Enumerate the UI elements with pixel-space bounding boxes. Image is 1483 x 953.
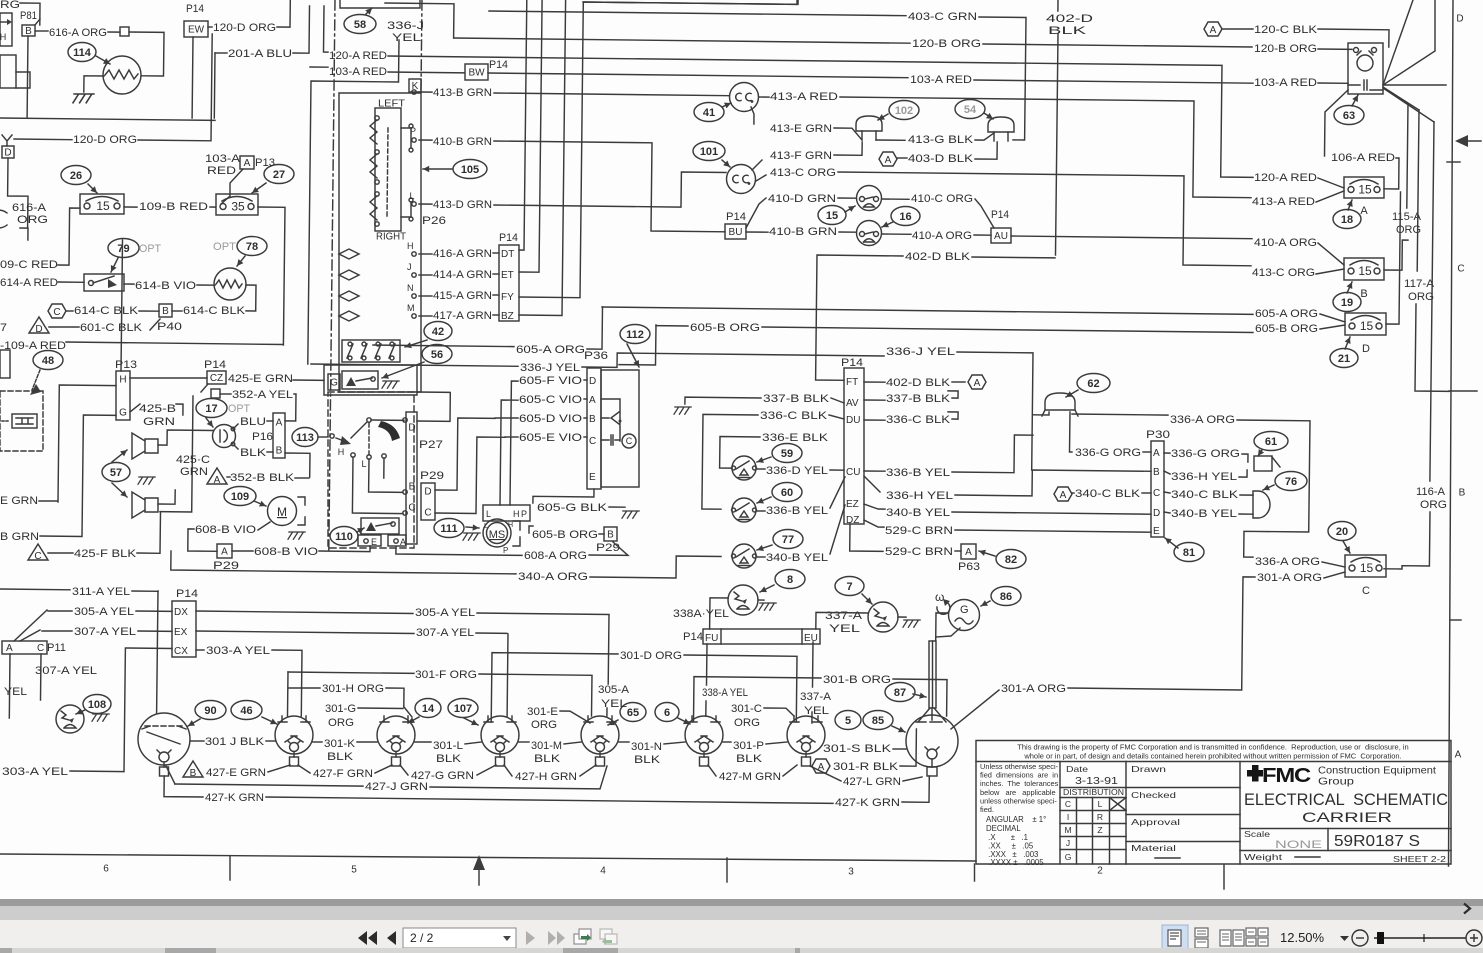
- arrow 63: [1352, 95, 1358, 106]
- toolbar prev-view icon: [574, 929, 591, 944]
- svg-text:B GRN: B GRN: [0, 531, 39, 543]
- svg-text:336-G ORG: 336-G ORG: [1171, 448, 1240, 460]
- relay 110 box: [361, 518, 399, 534]
- speaker 57 lower: [132, 492, 158, 518]
- wire 410-A to AU: [974, 234, 991, 236]
- arrow 78: [237, 256, 245, 266]
- wire 616-A bracket: [20, 228, 28, 240]
- flasher 41: [730, 83, 759, 112]
- wire row y4 top-left: [385, 3, 454, 38]
- svg-text:605-F VIO: 605-F VIO: [519, 375, 583, 387]
- svg-text:108: 108: [88, 699, 106, 711]
- wire 427-J row c: [430, 766, 607, 789]
- wire sender7 right: [898, 616, 906, 618]
- title block outer box: [976, 741, 1451, 865]
- svg-text:P14: P14: [991, 209, 1009, 221]
- wire 336-A to fuse20 route: [1237, 420, 1310, 557]
- wire 117-A below label: [1415, 304, 1449, 391]
- wire BLU to A: [267, 420, 273, 422]
- svg-text:P14: P14: [726, 211, 746, 223]
- fuse 27 (35A): [216, 194, 258, 215]
- svg-text:CX: CX: [174, 646, 188, 657]
- wire lamp107 to 301M: [519, 741, 529, 743]
- wire 305-A row: [136, 610, 172, 612]
- wire E pin to 605-G: [533, 489, 594, 503]
- weight dash: [1295, 856, 1320, 858]
- wire 414-A to ET: [493, 273, 499, 275]
- pin A box (110): [388, 535, 406, 546]
- toolbar zoom slider: [1374, 937, 1466, 939]
- fuse 26 (15A): [80, 194, 124, 214]
- wire EU riser b: [811, 712, 813, 723]
- wire 413-G to dome54: [975, 133, 994, 140]
- wire 120-D ORG corner: [277, 0, 290, 27]
- motor MS: [483, 519, 511, 547]
- svg-text:301-R BLK: 301-R BLK: [833, 761, 899, 773]
- wire 605-G to ground: [609, 506, 625, 508]
- svg-text:P11: P11: [47, 642, 66, 654]
- wire 605-A riser: [587, 307, 603, 349]
- svg-text:P27: P27: [419, 439, 443, 451]
- wire 427-E to lamp46: [268, 765, 290, 772]
- wire dome62 left stem: [1033, 412, 1049, 415]
- bus wire y118: [0, 118, 215, 120]
- zone tick 4-3: [726, 858, 728, 882]
- svg-text:B: B: [190, 768, 197, 779]
- P36 internal contacts: [601, 399, 620, 445]
- svg-text:608-A ORG: 608-A ORG: [524, 550, 587, 562]
- wire lamp14 to 301L: [415, 741, 431, 743]
- svg-text:605-G BLK: 605-G BLK: [537, 502, 608, 514]
- svg-text:614-C BLK: 614-C BLK: [74, 305, 139, 317]
- svg-text:3-13-91: 3-13-91: [1075, 775, 1118, 787]
- wire 117-A ORG vert: [1417, 110, 1419, 271]
- svg-text:336-B YEL: 336-B YEL: [886, 467, 950, 479]
- wire 427-G to lamp14: [400, 765, 408, 775]
- callout 14: [415, 699, 441, 718]
- wire 614-C to B: [139, 310, 159, 312]
- svg-text:CU: CU: [846, 467, 860, 478]
- svg-text:A: A: [1455, 750, 1462, 761]
- callout 48: [33, 351, 63, 370]
- arrow 59: [757, 457, 771, 462]
- toolbar page dropdown arrow: [503, 936, 511, 941]
- wire lamp6 to 301P: [723, 741, 731, 743]
- svg-text:105: 105: [461, 164, 479, 176]
- arrow 65: [608, 720, 618, 725]
- wire lamp65 to 301N: [619, 741, 629, 743]
- svg-text:616-A ORG: 616-A ORG: [49, 27, 107, 39]
- svg-text:336-H YEL: 336-H YEL: [886, 490, 953, 502]
- svg-text:AV: AV: [846, 398, 859, 409]
- wire 106-A right leg: [1384, 158, 1399, 189]
- toolbar one-column layout button: [1195, 928, 1208, 948]
- wire 413-F to dome102r: [834, 142, 862, 155]
- wire 427-H to lamp107: [504, 765, 512, 776]
- svg-text:P30: P30: [1146, 429, 1170, 441]
- wire 17 to BLU: [234, 424, 238, 428]
- svg-text:P14: P14: [204, 359, 226, 371]
- wire G bottom: [936, 628, 960, 637]
- callout 114: [68, 43, 96, 62]
- wire row y2 (403-B GRN): [583, 0, 797, 4]
- lamp 5: [787, 716, 825, 754]
- svg-text:BW: BW: [468, 68, 485, 79]
- svg-text:M: M: [407, 303, 415, 313]
- wire hexA 403-D: [897, 157, 907, 159]
- callout 76: [1275, 472, 1307, 491]
- svg-text:A: A: [974, 378, 981, 389]
- wire 352-A bracket: [285, 394, 296, 421]
- svg-text:410-B GRN: 410-B GRN: [769, 226, 837, 238]
- svg-text:FT: FT: [846, 377, 858, 388]
- svg-text:85: 85: [872, 715, 884, 727]
- alternator G: [949, 600, 980, 631]
- wire 301-H right: [386, 688, 404, 707]
- lamp 14: [377, 716, 415, 754]
- svg-text:305-A YEL: 305-A YEL: [74, 606, 134, 618]
- svg-text:427-M GRN: 427-M GRN: [719, 771, 781, 783]
- mode switch wedge: [378, 421, 400, 441]
- svg-text:C: C: [408, 503, 415, 514]
- callout 105: [453, 160, 487, 179]
- svg-text:301-D ORG: 301-D ORG: [620, 650, 682, 662]
- svg-text:87: 87: [894, 687, 906, 699]
- wire sq to 352-A: [220, 393, 231, 395]
- svg-text:BZ: BZ: [501, 311, 514, 322]
- svg-text:J: J: [1066, 838, 1070, 848]
- wire 605-A bracket: [373, 345, 514, 347]
- svg-text:Drawn: Drawn: [1131, 764, 1166, 774]
- component 61 box: [1254, 456, 1272, 471]
- arrow 20: [1343, 541, 1350, 553]
- svg-text:P13: P13: [115, 359, 137, 371]
- wire 337-B to ground: [685, 397, 761, 404]
- svg-text:413-A RED: 413-A RED: [770, 91, 838, 103]
- svg-text:109-B RED: 109-B RED: [139, 201, 208, 213]
- svg-text:111: 111: [440, 523, 457, 535]
- svg-text:614-B VIO: 614-B VIO: [135, 280, 197, 292]
- wire 307-A row left: [20, 630, 40, 641]
- wire 608-A right + diag to B: [589, 542, 628, 555]
- wire 402-D column: [1056, 34, 1059, 255]
- wire resistor78 to 614-C: [246, 285, 256, 311]
- wire 336-B to bus: [952, 435, 1033, 473]
- svg-text:102: 102: [895, 105, 913, 117]
- svg-text:413-C ORG: 413-C ORG: [1252, 267, 1315, 279]
- connector P13 H/G box: [116, 371, 130, 420]
- wire 301-C bracket: [764, 708, 794, 716]
- svg-text:605-A ORG: 605-A ORG: [516, 344, 585, 356]
- svg-text:301-M: 301-M: [531, 740, 562, 752]
- svg-text:BU: BU: [729, 227, 743, 238]
- svg-text:H: H: [0, 32, 6, 42]
- wire 413-D to flasher101: [494, 172, 726, 207]
- wire 427-J row: [166, 766, 175, 784]
- arrow 81: [1165, 538, 1178, 548]
- svg-text:41: 41: [703, 107, 715, 119]
- svg-text:3: 3: [848, 867, 854, 878]
- svg-text:413-E GRN: 413-E GRN: [770, 123, 832, 135]
- wire 427-M to lamp5: [783, 765, 797, 776]
- svg-text:ORG: ORG: [734, 717, 760, 729]
- svg-text:09-C RED: 09-C RED: [0, 259, 58, 271]
- horizontal scrollbar track: [0, 906, 1483, 920]
- arrow 108: [76, 710, 85, 714]
- wire G to 425-B diag: [130, 404, 140, 412]
- svg-text:D: D: [4, 148, 11, 159]
- svg-text:DX: DX: [174, 607, 188, 618]
- wire sw59 to 336-D: [757, 468, 765, 470]
- wire 201-A BLU riser: [213, 53, 216, 118]
- title divider scale/59R: [1327, 829, 1329, 851]
- svg-text:YEL: YEL: [601, 698, 627, 710]
- wire 427-J row b: [175, 784, 363, 786]
- wire 301M to lamp65: [564, 742, 581, 744]
- wire row 120-B ORG: [454, 38, 910, 43]
- svg-text:B: B: [607, 530, 614, 541]
- wire 301-B left to lamp6: [694, 677, 822, 721]
- big lamp 85: [906, 715, 958, 767]
- wire triC to 425-F: [48, 552, 73, 554]
- connector P29 D/C column: [421, 483, 435, 520]
- svg-text:614-A RED: 614-A RED: [0, 277, 58, 289]
- arrow 82: [979, 551, 995, 556]
- wire 115-A ORG vert: [1407, 104, 1408, 208]
- svg-text:59R0187 S: 59R0187 S: [1334, 833, 1420, 850]
- arrow 62: [1066, 390, 1078, 397]
- wire 605-F bracket: [510, 381, 518, 505]
- dome102 base left pin: [861, 131, 863, 140]
- fuse 19 (B): [1344, 258, 1384, 280]
- wire 336-C to DU: [829, 415, 844, 419]
- svg-text:E: E: [1153, 526, 1160, 537]
- wire 416-A to DT: [493, 252, 499, 254]
- wire 301-A riser: [1068, 577, 1255, 690]
- toolbar first-page button: [358, 931, 377, 945]
- wire 427-K to lamp90: [164, 776, 203, 797]
- callout 41: [694, 103, 724, 122]
- svg-text:C: C: [1153, 488, 1160, 499]
- switch 60: [732, 498, 756, 522]
- wire 120-D ORG second b: [138, 34, 212, 141]
- Y-splice left: [2, 135, 12, 146]
- svg-text:410-D GRN: 410-D GRN: [768, 193, 836, 205]
- wire 413-A lead: [759, 96, 769, 98]
- svg-text:337-A: 337-A: [825, 610, 863, 622]
- svg-text:15: 15: [1360, 561, 1374, 575]
- callout 46: [231, 701, 262, 720]
- wire 605-C bracket: [500, 400, 518, 505]
- svg-text:C: C: [1065, 799, 1071, 809]
- svg-text:120-B ORG: 120-B ORG: [912, 38, 981, 50]
- svg-text:D: D: [1456, 14, 1463, 25]
- wire B GRN to G: [40, 415, 116, 537]
- svg-text:P14: P14: [489, 59, 508, 71]
- component 76 D-shape: [1253, 491, 1270, 518]
- sheet right border: [1449, 0, 1454, 866]
- svg-text:336-J: 336-J: [387, 20, 424, 32]
- wire 311-A row left: [0, 588, 70, 591]
- dome54 base left pin: [993, 132, 995, 141]
- arrow 19: [1347, 282, 1352, 293]
- svg-text:2 / 2: 2 / 2: [410, 931, 434, 945]
- svg-text:616-A: 616-A: [12, 202, 47, 214]
- svg-text:BLU: BLU: [240, 416, 266, 428]
- connector P14 pin AU: [991, 228, 1011, 243]
- wire DT riser: [519, 0, 527, 250]
- wire third contact: [383, 458, 385, 478]
- svg-text:whole or in part, of design an: whole or in part, of design and details …: [1023, 752, 1401, 761]
- arrow 14: [408, 717, 419, 723]
- wire assembly to P27-D riser: [417, 391, 450, 393]
- callout 7: [835, 577, 864, 596]
- wire 417-A to BZ: [493, 314, 499, 316]
- wire 120-B to relay63: [1318, 48, 1352, 50]
- svg-text:301-G: 301-G: [325, 703, 356, 715]
- svg-text:19: 19: [1341, 297, 1353, 309]
- wire splice to resistor 114: [129, 32, 164, 76]
- wire 605-B to fuseD: [1320, 325, 1345, 329]
- svg-text:301-S BLK: 301-S BLK: [823, 743, 892, 755]
- wire 303-A riser (CX): [272, 650, 302, 716]
- flasher 16: [857, 221, 882, 246]
- connector P11 box: [2, 641, 47, 654]
- P81 diag: [35, 19, 40, 25]
- wire 425-F right: [137, 512, 161, 553]
- svg-text:120-A RED: 120-A RED: [1254, 172, 1317, 184]
- wire 305-A riser: [607, 615, 610, 684]
- wire 410-A to fuse19: [1318, 243, 1344, 265]
- triangle B (427-E): [183, 761, 203, 777]
- svg-text:FMC: FMC: [1262, 765, 1311, 787]
- wire CU to 336-B r: [864, 470, 885, 472]
- wire 402-D to hexA: [952, 381, 965, 383]
- svg-text:H: H: [508, 522, 513, 529]
- wire 307-A row r2: [476, 632, 507, 634]
- svg-text:12.50%: 12.50%: [1280, 930, 1325, 945]
- toolbar next-view icon (disabled): [600, 929, 617, 944]
- wire 410-D lead: [838, 197, 856, 199]
- svg-text:P14: P14: [683, 631, 703, 643]
- svg-text:107: 107: [454, 703, 472, 715]
- wire sender7 left: [816, 612, 868, 629]
- svg-text:C: C: [53, 307, 60, 318]
- wire 427-H to lamp65: [580, 765, 596, 776]
- callout 85: [863, 711, 893, 730]
- arrow 87: [913, 694, 926, 697]
- svg-text:FY: FY: [501, 292, 514, 303]
- svg-text:402-D BLK: 402-D BLK: [905, 251, 971, 263]
- svg-text:336-G ORG: 336-G ORG: [1075, 447, 1141, 459]
- wire 336-G lead: [1143, 451, 1151, 453]
- svg-text:A: A: [885, 155, 892, 166]
- callout 6: [655, 703, 679, 722]
- svg-text:C: C: [424, 508, 431, 519]
- svg-text:P13: P13: [255, 157, 275, 169]
- callout 58: [344, 15, 376, 34]
- mode switch contacts: [351, 453, 355, 457]
- svg-text:76: 76: [1285, 476, 1297, 488]
- wire 336-J lead: [311, 364, 518, 366]
- assembly 56 outer boxes: [324, 365, 417, 395]
- flasher 15: [857, 186, 882, 211]
- wire 605-B riser: [619, 325, 656, 365]
- wire P27-D riser: [417, 393, 450, 421]
- arrow 7: [862, 594, 872, 604]
- arrow 90: [188, 719, 200, 726]
- connector P40 pin B: [159, 304, 172, 317]
- svg-text:E GRN: E GRN: [0, 495, 38, 507]
- wire B-P16 right: [285, 453, 310, 477]
- svg-text:M: M: [1064, 825, 1071, 835]
- wire 106-A RED left leg: [1325, 90, 1349, 156]
- svg-text:GRN: GRN: [180, 466, 208, 478]
- svg-text:427-H GRN: 427-H GRN: [515, 771, 577, 783]
- arrow 6: [678, 718, 690, 724]
- splice square 616-A: [120, 27, 129, 36]
- connector P26 pin K: [409, 79, 421, 92]
- arrow 114: [96, 56, 110, 64]
- svg-text:7: 7: [0, 322, 7, 334]
- svg-text:413-G BLK: 413-G BLK: [908, 134, 974, 146]
- ground at resistor 114: [73, 94, 94, 103]
- svg-text:336-A ORG: 336-A ORG: [1170, 414, 1235, 426]
- svg-text:336-J YEL: 336-J YEL: [520, 362, 580, 374]
- wire 311-A row: [132, 590, 158, 592]
- ground at 337-B: [674, 407, 691, 414]
- callout 27: [264, 165, 294, 184]
- wire 301L to lamp107: [465, 742, 481, 744]
- svg-text:5: 5: [351, 865, 357, 876]
- wire 352-B to bracket: [295, 477, 309, 479]
- title divider weight: [1240, 850, 1451, 852]
- distribution grid: [1060, 798, 1126, 850]
- svg-text:112: 112: [626, 329, 644, 341]
- callout 78: [237, 237, 267, 256]
- svg-text:2: 2: [1097, 866, 1103, 877]
- svg-text:A: A: [1360, 205, 1368, 217]
- callout 57: [102, 463, 130, 482]
- svg-text:MS: MS: [489, 529, 506, 541]
- wire fuse26 to 109-B: [124, 206, 137, 208]
- svg-text:301-P: 301-P: [733, 740, 764, 752]
- P26 lower pins H J N M: [339, 249, 359, 259]
- svg-text:ORG: ORG: [1420, 499, 1447, 511]
- wire EZ to 340-B r: [864, 504, 885, 509]
- wire sender8 left: [710, 598, 728, 629]
- svg-text:C: C: [34, 551, 41, 562]
- fuse 21 (D): [1345, 313, 1386, 335]
- wire row 403-C GRN: [489, 11, 906, 16]
- svg-text:P: P: [410, 126, 416, 136]
- toolbar last-page button (disabled): [548, 931, 565, 945]
- svg-text:Approval: Approval: [1131, 817, 1180, 827]
- wire 303-A bottom riser: [70, 648, 172, 772]
- svg-text:410-A ORG: 410-A ORG: [1254, 237, 1317, 249]
- wire row 120-B ORG b: [983, 44, 1252, 47]
- svg-text:301-A ORG: 301-A ORG: [1001, 683, 1066, 695]
- svg-text:601-C BLK: 601-C BLK: [80, 322, 143, 334]
- arrow 77: [757, 545, 772, 550]
- wire 402-D row right: [972, 256, 1055, 259]
- svg-text:529-C BRN: 529-C BRN: [885, 525, 953, 537]
- connector P36 outer box: [601, 370, 639, 487]
- svg-text:605-B ORG: 605-B ORG: [690, 322, 760, 334]
- wire 305-A row r: [196, 611, 413, 614]
- svg-text:608-B VIO: 608-B VIO: [254, 546, 319, 558]
- wire 340-C to comp76: [1240, 494, 1253, 496]
